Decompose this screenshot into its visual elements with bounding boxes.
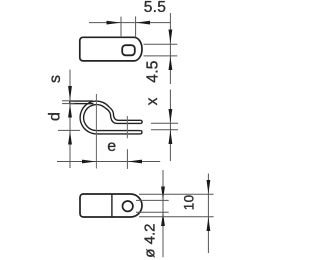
- svg-text:4.5: 4.5: [144, 60, 161, 82]
- arrow left to hole centerline: [128, 160, 142, 164]
- 10 dim line: [207, 174, 209, 254]
- s ext tick top: [62, 100, 75, 102]
- arrow down to tab top: [68, 86, 72, 101]
- bottom view hole: [123, 201, 133, 211]
- arrow down to plate top: [207, 180, 211, 194]
- bottom view divider line: [111, 194, 113, 217]
- top view plate outline: [80, 37, 142, 61]
- side view tab end cap: [69, 101, 71, 104]
- arrow down to leg gap top: [169, 109, 173, 123]
- svg-text:e: e: [107, 138, 116, 155]
- svg-text:x: x: [144, 97, 161, 105]
- upper leg bottom line with elbow from inner circle: [105, 108, 141, 124]
- right vertical dim line (x part): [169, 90, 171, 162]
- arrow left toward hole right: [136, 21, 150, 25]
- svg-text:5.5: 5.5: [144, 0, 166, 16]
- s ext tick bottom: [62, 103, 75, 105]
- ext line legs lower: [151, 129, 178, 131]
- ext line hole top: [144, 43, 178, 45]
- svg-text:10: 10: [182, 195, 197, 211]
- arrow down to hole top: [169, 30, 173, 44]
- arrow up to leg gap bottom: [169, 130, 173, 144]
- svg-text:d: d: [46, 112, 63, 121]
- ext line plate bottom (D): [139, 216, 214, 218]
- ext line plate top (A): [139, 193, 214, 195]
- side view tab bottom line: [70, 103, 94, 105]
- left vertical dim line (s and d): [69, 70, 71, 169]
- ext line hole bottom: [144, 55, 178, 57]
- dia 4.2 dim line: [162, 170, 164, 257]
- top view oblong hole: [122, 45, 135, 55]
- arrow up to plate bottom: [207, 217, 211, 231]
- ext line legs upper: [151, 122, 178, 124]
- ext line hole top (B): [136, 199, 169, 201]
- arrow right toward hole left: [107, 21, 121, 25]
- d ext tick: [58, 129, 80, 131]
- arrow up to hole bottom: [169, 56, 173, 70]
- nail centerline on legs: [126, 116, 128, 138]
- side view loop inner arc with lower leg top line: [84, 105, 141, 131]
- svg-text:ø 4.2: ø 4.2: [142, 224, 159, 258]
- upper leg top line with elbow from outer circle: [109, 107, 141, 120]
- dim 5.5 line: [89, 22, 170, 24]
- bottom view outline: [80, 194, 142, 217]
- side view tab top line: [70, 100, 93, 102]
- upper leg end cap: [141, 120, 143, 123]
- svg-text:s: s: [47, 75, 64, 83]
- arrow up to tab bottom: [68, 104, 72, 118]
- dim 5.5 tick left: [120, 17, 122, 38]
- e tick right: [126, 149, 128, 169]
- lower leg end cap: [140, 131, 142, 134]
- right vertical dim line (4.5 part): [169, 13, 171, 84]
- loop vertical centerline: [95, 94, 97, 169]
- arrow right to loop centerline: [82, 160, 96, 164]
- arrow up to hole bottom: [161, 213, 165, 227]
- arrow up to d tick: [68, 131, 72, 145]
- side view loop outer arc with lower leg bottom line: [80, 101, 140, 134]
- arrow down to hole top: [161, 187, 165, 201]
- e dim line: [57, 161, 160, 163]
- dim 5.5 tick right: [135, 16, 137, 37]
- ext line hole bottom (C): [136, 211, 169, 213]
